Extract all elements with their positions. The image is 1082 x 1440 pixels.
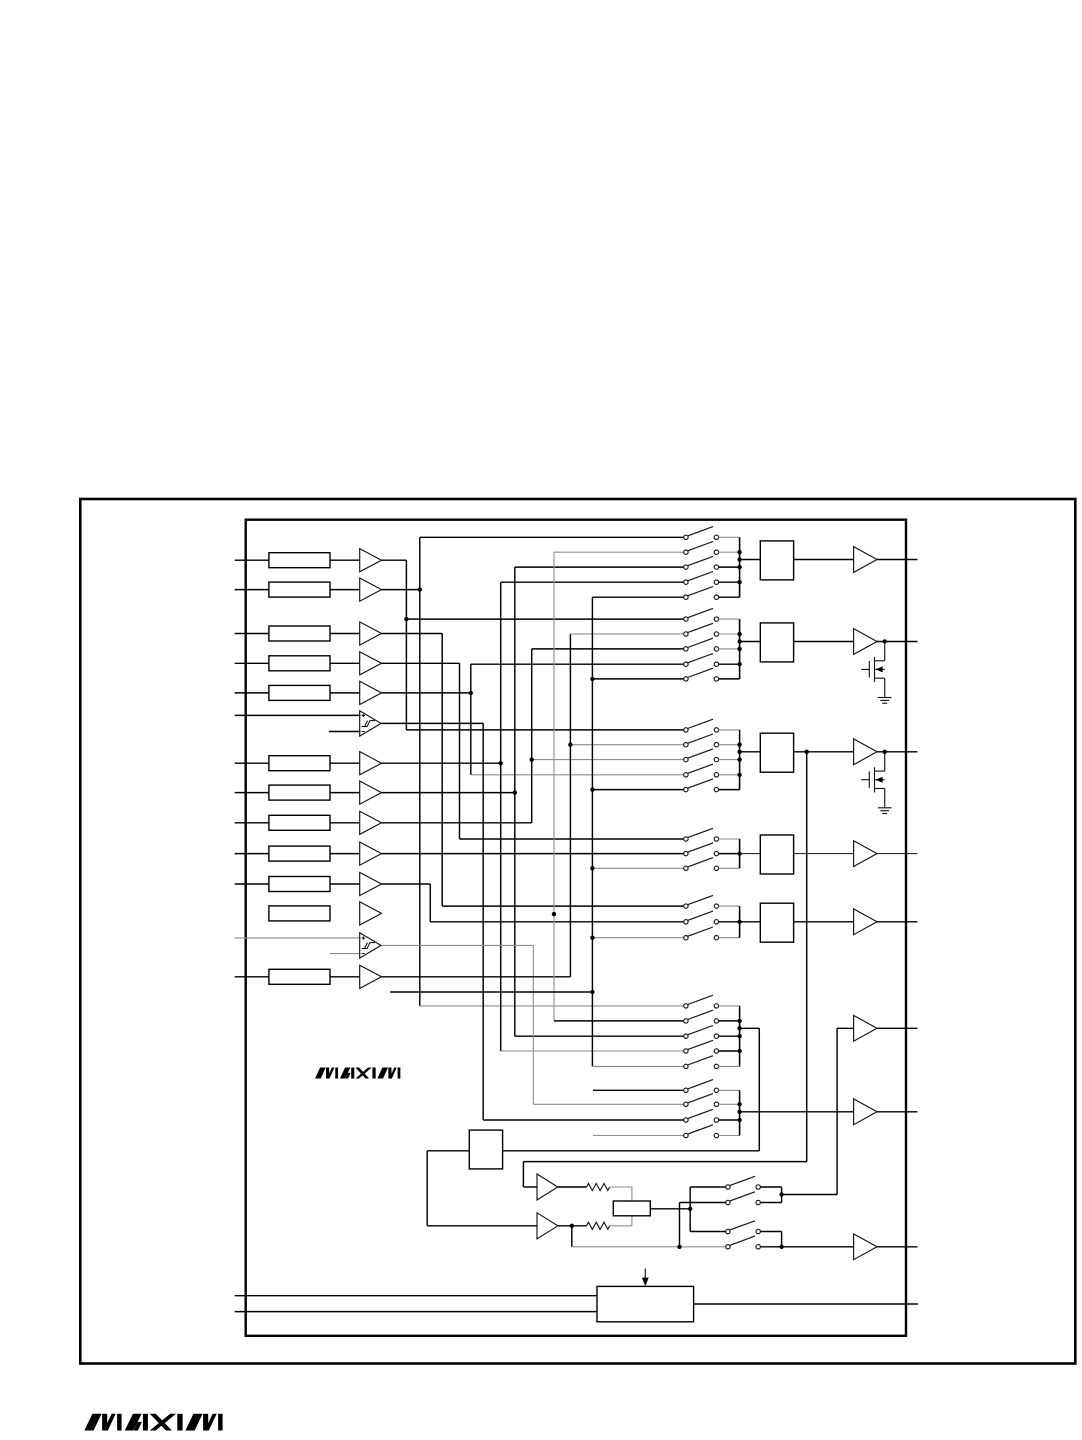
bank3 common bus [737, 730, 741, 790]
outer frame [80, 499, 1075, 1364]
output buffer OUT4 [794, 841, 918, 867]
resistor A2 [269, 582, 330, 597]
schmitt trigger S1 input - [329, 731, 361, 733]
input line B5 [235, 883, 269, 885]
switch bank3 S5 [684, 779, 740, 792]
input line B1 [235, 762, 269, 764]
input line A3 [235, 633, 269, 635]
ground of M1 [878, 698, 892, 704]
switch bank3 S3 [684, 749, 740, 762]
switch bank1 S3 [684, 556, 740, 569]
bank5 common bus [737, 906, 741, 938]
resistor B4 [269, 846, 330, 861]
switch bank2 S4 [684, 654, 740, 667]
input line A4 [235, 662, 269, 664]
wire U12 output [558, 1224, 587, 1228]
buffer A4 [330, 662, 360, 664]
net B2: buffer B2 output to bank1 row3 and bank6 row3 [382, 567, 684, 1036]
junction box3 output [805, 750, 809, 754]
T-gate box 5 [740, 903, 794, 942]
sense buffer U12 [537, 1213, 558, 1239]
output buffer OUT3 [794, 739, 918, 765]
switch bank5 S1 [684, 895, 740, 908]
resistor R2 [587, 1222, 610, 1229]
bank2 common bus [737, 619, 741, 679]
resistor A4 [269, 656, 330, 671]
wire R2 to clamp box [610, 1216, 632, 1226]
wire U12 to T-switch rows 2 [572, 1203, 726, 1250]
wire R1 to clamp box [610, 1187, 632, 1201]
net S1: schmitt S1 output to bank7 row3 [381, 723, 684, 1120]
resistor B7 [269, 969, 330, 984]
resistor B5 [269, 877, 330, 892]
decoder input line 2 [235, 1311, 597, 1313]
T-gate box 3 [740, 733, 794, 772]
schmitt trigger S2 input - [330, 953, 361, 955]
resistor B3 [269, 815, 330, 830]
comparator box U10 [469, 1130, 502, 1169]
switch bank1 S4 [684, 572, 740, 585]
resistor B1 [269, 756, 330, 771]
net A4: buffer A4 output to bank4 row1 [382, 663, 684, 839]
output buffer OUT6 [854, 1015, 918, 1041]
switch bank3 S2 [684, 734, 740, 747]
buffer B1 [330, 762, 360, 764]
IC boundary box [246, 520, 906, 1336]
ground of M2 [878, 808, 892, 814]
T-switch TS1 [726, 1176, 761, 1189]
net bank1 row2 feed to bank6 row2 [552, 552, 684, 1021]
T-gate box 4 [740, 835, 794, 874]
decoder output line [694, 1303, 918, 1305]
T-switch TS2 [726, 1192, 761, 1205]
switch bank2 S1 [684, 608, 740, 621]
net A5: buffer A5 output to bank2 row4 and bank3 row4 [382, 664, 684, 775]
output buffer OUT8 [854, 1234, 918, 1260]
T-switch TS4 [726, 1236, 761, 1249]
buffer B2 [330, 792, 360, 794]
switch bank7 S2 [684, 1094, 740, 1107]
buffer B6 [360, 902, 382, 925]
switch bank1 S1 [684, 527, 740, 540]
decoder input line 1 [235, 1295, 597, 1297]
net B7: buffer B7 output to bank2 row2 and bank3 row2 [382, 634, 684, 977]
switch bank2 S5 [684, 668, 740, 681]
switch bank2 S3 [684, 638, 740, 651]
input line B2 [235, 792, 269, 794]
input line A2 [235, 589, 269, 591]
switch bank4 S1 [684, 828, 740, 841]
resistor A1 [269, 553, 330, 568]
T-gate box 2 [740, 623, 794, 662]
wire comparator box to lower sense buffer [427, 1151, 537, 1226]
switch bank6 S1 [684, 995, 740, 1008]
switch bank6 S3 [684, 1026, 740, 1039]
buffer A2 [330, 589, 360, 591]
schmitt trigger S2 [360, 933, 381, 958]
input line A5 [235, 692, 269, 694]
buffer A5 [330, 692, 360, 694]
wire bank7 row1 stub [593, 1089, 684, 1091]
switch bank7 S3 [684, 1109, 740, 1122]
decoder box [597, 1286, 694, 1321]
wire upper T-switch pair to OUT6 buffer [760, 1028, 853, 1202]
switch bank7 S4 [684, 1125, 740, 1138]
bank4 common bus [737, 839, 741, 868]
wire stub to net x592 [390, 990, 594, 994]
wire box3 net to upper sense buffer [523, 752, 806, 1187]
T-switch TS3 [726, 1221, 761, 1234]
net B5: buffer B5 output to bank5 row2 [382, 884, 684, 922]
bank1 common bus [737, 537, 741, 597]
switch bank4 S2 [684, 843, 740, 856]
buffer B7 [330, 976, 360, 978]
switch bank3 S1 [684, 719, 740, 732]
net B4: buffer B4 output to bank4 row2 [382, 853, 684, 855]
buffer B3 [330, 822, 360, 824]
bank7 common bus [737, 1090, 741, 1135]
switch bank1 S5 [684, 587, 740, 600]
switch bank6 S2 [684, 1010, 740, 1023]
net bank1 row5 feed bus x592 [590, 597, 684, 1066]
wire clamp output to T-switches [650, 1187, 725, 1232]
buffer B5 [330, 883, 360, 885]
input line A1 [235, 559, 269, 561]
net A1: buffer A1 output to bank2 row1 and bank3 row1 [382, 560, 684, 730]
net B3: buffer B3 output to bank2 row3 and bank3 row3 [382, 649, 684, 823]
schmitt trigger S1 input + [235, 714, 361, 716]
resistor B6 [269, 906, 330, 921]
MAXIM logo inside IC [315, 1068, 400, 1079]
output buffer OUT5 [794, 909, 918, 935]
output buffer OUT2 [794, 629, 918, 655]
schmitt trigger S2 input + [235, 937, 361, 939]
n-channel MOSFET M1 [861, 639, 887, 697]
net B1: buffer B1 output to bank1 row4 and bank6 row4 [382, 582, 684, 1051]
switch bank3 S4 [684, 764, 740, 777]
bank6 common bus [737, 1006, 741, 1067]
switch bank7 S1 [684, 1080, 740, 1093]
switch bank5 S2 [684, 911, 740, 924]
input line B3 [235, 822, 269, 824]
wire bank7 output to OUT7 buffer [740, 1111, 854, 1113]
schmitt trigger S1 [360, 711, 381, 736]
input line B7 [235, 976, 269, 978]
sense buffer U11 [537, 1174, 558, 1200]
wire bank7 row4 stub [593, 1135, 684, 1137]
input line B4 [235, 853, 269, 855]
net A3: buffer A3 output to bank5 row1 [382, 634, 684, 907]
T-gate box 1 [740, 541, 794, 580]
wire lower T-switch pair to OUT8 buffer [760, 1232, 853, 1250]
switch bank4 S3 [684, 858, 740, 871]
buffer A3 [330, 633, 360, 635]
wire bank6 output to comparator box [503, 1028, 760, 1151]
resistor R1 [587, 1183, 610, 1190]
clamp box [613, 1201, 650, 1216]
resistor B2 [269, 785, 330, 800]
switch bank2 S2 [684, 623, 740, 636]
decoder select arrow [642, 1269, 649, 1287]
switch bank1 S2 [684, 542, 740, 555]
n-channel MOSFET M2 [861, 750, 887, 808]
wire U11 output [558, 1186, 587, 1188]
buffer B4 [330, 853, 360, 855]
buffer A1 [330, 559, 360, 561]
resistor A3 [269, 626, 330, 641]
output buffer OUT7 [854, 1099, 918, 1125]
switch bank6 S5 [684, 1056, 740, 1069]
resistor A5 [269, 685, 330, 700]
switch bank6 S4 [684, 1040, 740, 1053]
MAXIM logo page footer [84, 1414, 222, 1431]
net S2: schmitt S2 output to bank7 row2 [381, 945, 684, 1104]
output buffer OUT1 [794, 547, 918, 573]
switch bank5 S3 [684, 927, 740, 940]
net A2: buffer A2 output to bank1 row1 and bank6 row1 [382, 537, 684, 1006]
